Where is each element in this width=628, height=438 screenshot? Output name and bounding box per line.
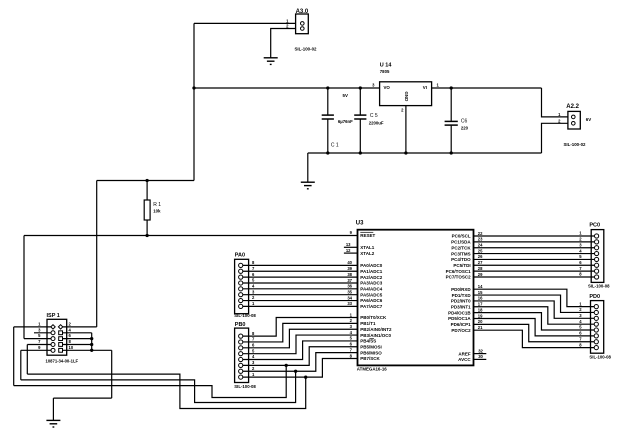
svg-text:10871-34-00-1LF: 10871-34-00-1LF	[46, 359, 79, 364]
pin label PB7/SCK	[360, 356, 380, 361]
svg-text:10: 10	[69, 345, 74, 350]
connector PB0 (SIL-100-08)	[235, 328, 249, 382]
svg-text:13: 13	[346, 242, 351, 247]
pin label PB6/MISO	[360, 350, 382, 355]
wire ISP pin5	[24, 338, 51, 340]
pin label PB0/T0/XCK	[360, 315, 387, 320]
svg-text:18: 18	[478, 307, 483, 312]
wire 5V branch horizontal	[97, 180, 194, 182]
wire PB3 net	[243, 335, 358, 354]
svg-text:25: 25	[478, 248, 483, 253]
svg-text:6V: 6V	[586, 117, 591, 122]
svg-text:32: 32	[478, 348, 483, 353]
svg-text:PA5/ADC5: PA5/ADC5	[360, 292, 382, 297]
junction (5V rail / vertical)	[192, 86, 195, 89]
svg-text:PC4/TDO: PC4/TDO	[451, 257, 471, 262]
wire GND stem	[52, 398, 54, 420]
wire PB1 net	[243, 323, 358, 342]
wire A2.2 pin1	[542, 88, 568, 117]
svg-text:ATMEGA16-16: ATMEGA16-16	[357, 367, 387, 372]
connector ISP1 (2x5 header)	[47, 319, 67, 355]
svg-text:PD3/INT1: PD3/INT1	[451, 304, 471, 309]
svg-text:PC5/TDI: PC5/TDI	[453, 263, 470, 268]
wire PA1 net	[243, 270, 358, 272]
svg-text:PB3/AIN1/OC0: PB3/AIN1/OC0	[360, 333, 391, 338]
wire A3.0 pin2	[271, 29, 296, 58]
wire PB4 net	[243, 341, 358, 360]
svg-text:PD5/OC1A: PD5/OC1A	[448, 316, 471, 321]
svg-text:R 1: R 1	[153, 202, 161, 208]
svg-text:ISP 1: ISP 1	[47, 313, 60, 319]
svg-text:PC2/TCK: PC2/TCK	[451, 245, 471, 250]
svg-text:PB6/MISO: PB6/MISO	[360, 350, 382, 355]
svg-text:38: 38	[347, 272, 352, 277]
junction (C6 bottom)	[450, 151, 453, 154]
connector PC0 (SIL-100-08)	[591, 230, 604, 283]
wire ISP pin6	[63, 338, 92, 340]
wire ISP pin9 (MISO)	[21, 349, 51, 351]
svg-text:PA7/ADC7: PA7/ADC7	[360, 304, 382, 309]
wire GND horizontal	[53, 397, 111, 399]
wire PD3 net	[474, 307, 595, 324]
svg-text:SIL-100-08: SIL-100-08	[588, 284, 610, 289]
junction (C1 bottom)	[326, 151, 329, 154]
svg-text:PD7/OC2: PD7/OC2	[451, 328, 471, 333]
wire PA0 net	[243, 264, 358, 266]
svg-text:A3.0: A3.0	[296, 9, 309, 15]
wire MISO bus	[21, 371, 296, 402]
svg-text:U 14: U 14	[380, 63, 393, 69]
junction (MISO / PB6 net)	[294, 370, 297, 373]
wire AREF stub	[474, 353, 487, 355]
junction (ISP pin8)	[90, 343, 93, 346]
wire ISP pin7 (SCK)	[27, 344, 51, 346]
wire PB5 net	[243, 347, 358, 366]
svg-text:PC0/SCL: PC0/SCL	[452, 234, 471, 239]
junction (C1 top)	[326, 86, 329, 89]
pin label PB1/T1	[360, 321, 376, 326]
svg-text:PA0: PA0	[235, 252, 245, 258]
svg-text:VO: VO	[384, 85, 391, 90]
svg-text:PB2/AIN0/INT2: PB2/AIN0/INT2	[360, 327, 392, 332]
svg-text:PC3/TMS: PC3/TMS	[451, 251, 471, 256]
svg-text:40: 40	[347, 260, 352, 265]
ground (bottom left)	[46, 420, 60, 427]
svg-text:14: 14	[478, 284, 483, 289]
wire PD4 net	[474, 313, 595, 330]
wire XTAL2 stub	[344, 252, 358, 254]
wire PC0 net	[474, 235, 595, 237]
svg-text:PA2/ADC2: PA2/ADC2	[360, 275, 382, 280]
svg-text:17: 17	[478, 302, 483, 307]
svg-text:C6: C6	[461, 118, 468, 124]
wire PC6 net	[474, 270, 595, 272]
wire PA6 net	[243, 300, 358, 302]
wire MOSI vertical	[13, 327, 15, 386]
svg-text:PD0/RXD: PD0/RXD	[451, 287, 471, 292]
wire PC7 net	[474, 276, 595, 278]
wire PD1 net	[474, 295, 595, 312]
wire PC3 net	[474, 253, 595, 255]
svg-text:PD1/TXD: PD1/TXD	[452, 293, 472, 298]
svg-text:39: 39	[347, 266, 352, 271]
svg-text:GND: GND	[404, 92, 409, 102]
pin label PB2/AIN0/INT2	[360, 327, 392, 332]
wire PB2 net	[243, 329, 358, 348]
wire PB7 net	[243, 358, 358, 377]
junction (C6 top)	[450, 86, 453, 89]
svg-text:SIL-100-02: SIL-100-02	[564, 142, 587, 147]
svg-text:24: 24	[478, 243, 483, 248]
junction (R1 bottom / RESET bus)	[145, 234, 148, 237]
wire GND down	[111, 350, 113, 398]
regulator U14 body	[380, 82, 432, 106]
svg-text:XTAL2: XTAL2	[360, 251, 374, 256]
wire PA7 net	[243, 305, 358, 307]
wire PD2 net	[474, 301, 595, 318]
svg-text:16: 16	[478, 296, 483, 301]
capacitor C5	[354, 88, 366, 153]
junction (C5 top)	[359, 86, 362, 89]
svg-text:PA0/ADC0: PA0/ADC0	[360, 263, 382, 268]
svg-text:6µ76nF: 6µ76nF	[338, 119, 353, 124]
wire PA2 net	[243, 276, 358, 278]
wire U14 GND pin	[405, 106, 407, 153]
svg-text:SIL-100-08: SIL-100-08	[234, 313, 256, 318]
wire PB0 net	[243, 318, 358, 337]
wire A3.0 pin1 to 5V vertical	[194, 22, 296, 24]
svg-text:PD6/ICP1: PD6/ICP1	[451, 322, 472, 327]
wire ISP pin8	[63, 344, 92, 346]
junction (ISP pin6)	[90, 337, 93, 340]
wire PA5 net	[243, 294, 358, 296]
svg-text:20: 20	[478, 319, 483, 324]
wire PD0 net	[474, 289, 595, 306]
svg-text:37: 37	[347, 278, 352, 283]
connector PD0 (SIL-100-08)	[591, 301, 604, 354]
svg-text:AREF: AREF	[458, 351, 471, 356]
capacitor C6	[445, 88, 458, 153]
svg-text:33: 33	[347, 301, 352, 306]
capacitor C1	[322, 88, 334, 153]
svg-text:RESET: RESET	[360, 233, 375, 238]
svg-text:XTAL1: XTAL1	[360, 245, 374, 250]
svg-text:PC0: PC0	[589, 223, 600, 229]
svg-text:PB0/T0/XCK: PB0/T0/XCK	[360, 315, 387, 320]
connector A3.0 (SIL-100-02)	[296, 14, 309, 34]
svg-text:AVCC: AVCC	[458, 357, 471, 362]
svg-text:10k: 10k	[153, 209, 161, 214]
wire 5V branch down to ISP pin2	[96, 181, 98, 327]
svg-text:SIL-100-08: SIL-100-08	[589, 355, 611, 360]
svg-text:C 1: C 1	[331, 143, 339, 149]
wire MISO vertical	[20, 350, 22, 380]
svg-text:PC6/TOSC1: PC6/TOSC1	[446, 269, 471, 274]
svg-text:2200uF: 2200uF	[369, 121, 384, 126]
ground (below A3.0)	[264, 58, 278, 65]
junction (U14 gnd / rail)	[404, 151, 407, 154]
wire SCK vertical	[26, 345, 28, 375]
wire ISP pin4	[63, 332, 92, 334]
svg-text:5V: 5V	[343, 93, 348, 98]
wire PC5 net	[474, 264, 595, 266]
svg-text:28: 28	[478, 266, 483, 271]
wire PC1 net	[474, 241, 595, 243]
wire ISP pin1 (MOSI)	[14, 326, 52, 328]
svg-text:35: 35	[347, 289, 352, 294]
svg-text:PA4/ADC4: PA4/ADC4	[360, 287, 382, 292]
wire RESET bus	[24, 235, 358, 237]
wire ISP pin3 stub	[34, 332, 51, 334]
wire ISP gnd tie vertical	[91, 333, 93, 351]
svg-text:7805: 7805	[380, 69, 390, 74]
pin label RESET	[360, 232, 375, 238]
svg-text:15: 15	[478, 290, 483, 295]
svg-text:19: 19	[478, 313, 483, 318]
ground (power section)	[301, 182, 315, 189]
wire PD7 net	[474, 330, 595, 347]
junction (SCK / PB7 net)	[304, 376, 307, 379]
wire 5V vertical	[193, 23, 195, 180]
svg-text:27: 27	[478, 260, 483, 265]
wire ISP pin2 (VCC)	[63, 326, 97, 328]
svg-text:SIL-100-02: SIL-100-02	[295, 47, 318, 52]
svg-text:36: 36	[347, 284, 352, 289]
connector PA0 (SIL-100-08)	[235, 259, 249, 313]
wire PA3 net	[243, 282, 358, 284]
junction (R1 top)	[145, 179, 148, 182]
svg-text:PC7/TOSC2: PC7/TOSC2	[446, 275, 471, 280]
svg-text:29: 29	[478, 272, 483, 277]
junction (C5 bottom)	[359, 151, 362, 154]
svg-text:PD2/INT0: PD2/INT0	[451, 299, 471, 304]
junction (ISP pin10)	[90, 349, 93, 352]
resistor R1	[144, 181, 150, 236]
wire 5V rail	[194, 87, 380, 89]
svg-text:220: 220	[461, 125, 469, 130]
svg-text:U3: U3	[356, 220, 364, 226]
svg-text:VI: VI	[423, 85, 427, 90]
wire PC2 net	[474, 247, 595, 249]
svg-text:PD0: PD0	[589, 294, 600, 300]
wire ground rail	[308, 152, 542, 154]
svg-text:PB5/MOSI: PB5/MOSI	[360, 344, 382, 349]
wire PB6 net	[243, 353, 358, 372]
wire PD6 net	[474, 324, 595, 341]
svg-text:C 5: C 5	[370, 113, 378, 119]
svg-text:12: 12	[346, 248, 351, 253]
svg-text:PA6/ADC6: PA6/ADC6	[360, 298, 382, 303]
svg-text:PA3/ADC3: PA3/ADC3	[360, 281, 382, 286]
pin label PB5/MOSI	[360, 344, 382, 349]
svg-text:PA1/ADC1: PA1/ADC1	[360, 269, 382, 274]
pin label PB3/AIN1/OC0	[360, 333, 391, 338]
junction (MOSI / PB5 net)	[285, 364, 288, 367]
wire PD5 net	[474, 318, 595, 335]
svg-text:PB4/SS: PB4/SS	[360, 339, 376, 344]
svg-text:34: 34	[347, 295, 352, 300]
svg-text:PC1/SDA: PC1/SDA	[451, 240, 471, 245]
wire U14 VI to A2.2	[432, 87, 542, 89]
svg-text:PB0: PB0	[235, 322, 246, 328]
svg-text:PB1/T1: PB1/T1	[360, 321, 376, 326]
wire XTAL1 stub	[344, 246, 358, 248]
svg-text:26: 26	[478, 254, 483, 259]
wire A2.2 pin2	[542, 123, 568, 153]
svg-text:21: 21	[478, 325, 483, 330]
MCU U3 body	[358, 230, 474, 366]
wire ground rail drop	[307, 153, 309, 182]
wire AVCC stub	[474, 358, 487, 360]
svg-text:SIL-100-08: SIL-100-08	[234, 384, 256, 389]
wire RESET bus down to ISP pin5	[23, 236, 25, 339]
pin label PB4/SS	[360, 339, 376, 344]
svg-text:A2.2: A2.2	[566, 104, 579, 110]
svg-text:30: 30	[478, 354, 483, 359]
wire PA4 net	[243, 288, 358, 290]
wire ISP pin10 (GND)	[63, 349, 112, 351]
svg-text:PB7/SCK: PB7/SCK	[360, 356, 380, 361]
wire PC4 net	[474, 258, 595, 260]
svg-text:PD4/OC1B: PD4/OC1B	[448, 310, 471, 315]
svg-text:22: 22	[478, 231, 483, 236]
connector A2.2 (SIL-100-02)	[568, 111, 580, 129]
wire MOSI bus	[14, 365, 287, 397]
svg-text:23: 23	[478, 237, 483, 242]
wire SCK bus	[27, 374, 305, 408]
